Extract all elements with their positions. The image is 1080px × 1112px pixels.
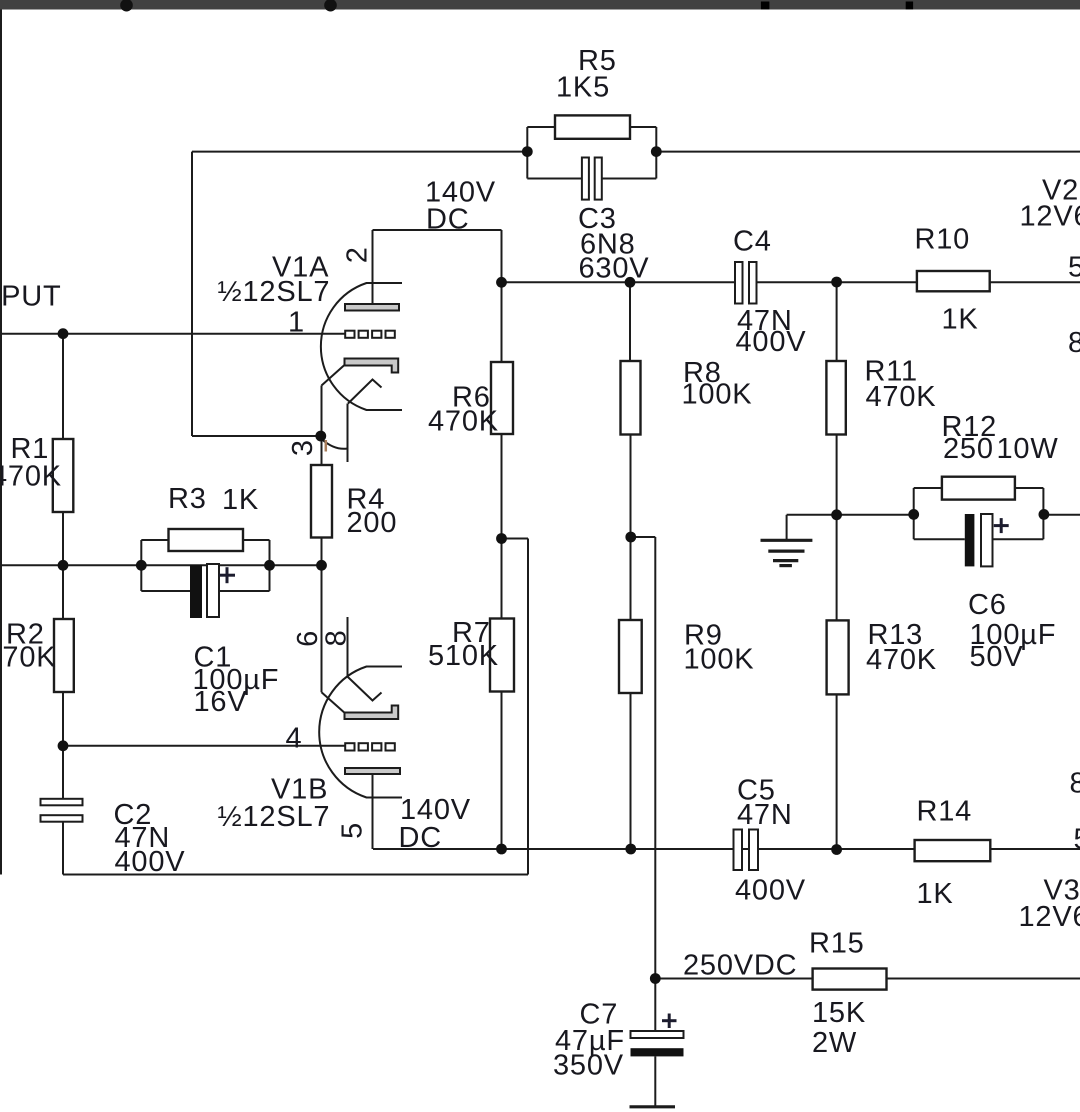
svg-text:470K: 470K <box>0 461 62 493</box>
svg-text:50V: 50V <box>970 641 1024 673</box>
svg-text:510K: 510K <box>428 640 499 672</box>
svg-text:6: 6 <box>292 630 324 647</box>
svg-text:1K: 1K <box>222 484 259 516</box>
svg-text:350V: 350V <box>553 1050 624 1082</box>
svg-text:10W: 10W <box>997 433 1059 465</box>
svg-text:R10: R10 <box>915 224 971 256</box>
svg-text:100K: 100K <box>682 378 753 410</box>
svg-text:5: 5 <box>1074 824 1080 856</box>
svg-text:5: 5 <box>1068 251 1080 283</box>
svg-text:½12SL7: ½12SL7 <box>218 801 331 833</box>
svg-text:2W: 2W <box>812 1027 857 1059</box>
svg-text:470K: 470K <box>866 381 937 413</box>
svg-text:250: 250 <box>943 433 994 465</box>
svg-text:140V: 140V <box>400 794 471 826</box>
svg-text:5: 5 <box>337 822 369 839</box>
svg-text:4: 4 <box>286 723 303 755</box>
svg-text:2: 2 <box>341 246 373 263</box>
svg-text:C6: C6 <box>968 589 1007 621</box>
svg-text:1K5: 1K5 <box>556 72 610 104</box>
svg-text:8: 8 <box>320 629 352 646</box>
svg-text:C4: C4 <box>733 226 772 258</box>
svg-text:12V6: 12V6 <box>1020 201 1080 233</box>
svg-text:1: 1 <box>288 307 305 339</box>
svg-text:400V: 400V <box>115 846 186 878</box>
svg-text:R15: R15 <box>809 928 865 960</box>
svg-text:1K: 1K <box>942 304 979 336</box>
svg-text:R14: R14 <box>917 795 973 827</box>
svg-text:3: 3 <box>287 439 319 456</box>
svg-text:DC: DC <box>426 203 470 235</box>
svg-text:100K: 100K <box>684 644 755 676</box>
svg-text:47N: 47N <box>737 799 793 831</box>
svg-text:INPUT: INPUT <box>0 281 62 313</box>
svg-text:1K: 1K <box>917 878 954 910</box>
svg-text:R3: R3 <box>168 483 207 515</box>
svg-text:470K: 470K <box>0 641 56 673</box>
svg-text:DC: DC <box>399 822 443 854</box>
svg-text:470K: 470K <box>428 406 499 438</box>
svg-text:400V: 400V <box>736 326 807 358</box>
svg-text:200: 200 <box>347 507 398 539</box>
svg-text:8: 8 <box>1068 327 1080 359</box>
svg-text:12V6: 12V6 <box>1019 901 1080 933</box>
svg-text:½12SL7: ½12SL7 <box>218 276 331 308</box>
svg-text:400V: 400V <box>735 875 806 907</box>
svg-text:470K: 470K <box>866 644 937 676</box>
svg-text:15K: 15K <box>812 997 866 1029</box>
svg-text:630V: 630V <box>579 253 650 285</box>
svg-text:250VDC: 250VDC <box>683 950 797 982</box>
svg-text:8: 8 <box>1070 767 1080 799</box>
svg-text:16V: 16V <box>194 686 248 718</box>
